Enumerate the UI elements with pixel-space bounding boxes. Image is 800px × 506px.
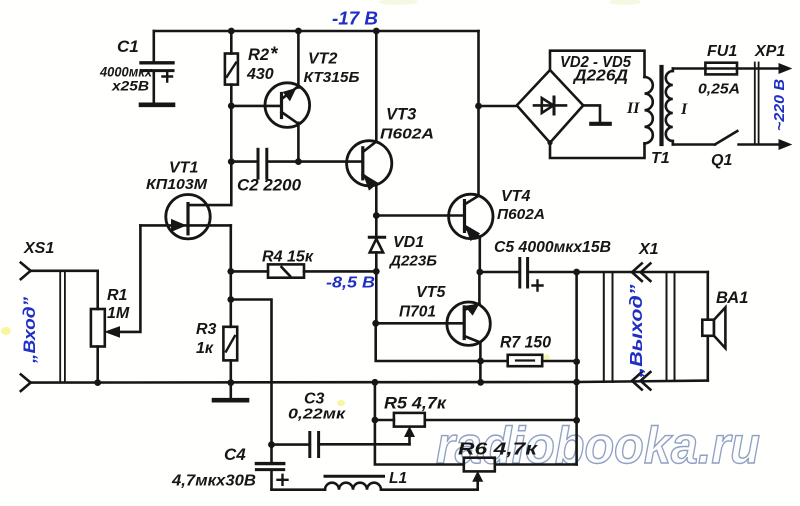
svg-text:VT5: VT5: [416, 284, 446, 301]
svg-text:Q1: Q1: [711, 152, 732, 169]
svg-text:C5 4000мкх15В: C5 4000мкх15В: [494, 239, 611, 256]
wire: branch to C4 column: [231, 300, 272, 445]
svg-text:I: I: [680, 101, 688, 118]
ground bar of C1: [141, 103, 173, 108]
wire: node column down to C2 node: [230, 106, 233, 162]
diode VD1: [369, 216, 384, 272]
svg-text:КП103М: КП103М: [146, 177, 208, 193]
trimmer R5: [375, 413, 577, 444]
wire: bridge node to rectifier left corner: [479, 105, 517, 108]
svg-text:VT2: VT2: [308, 51, 337, 68]
capacitor C4: [256, 445, 287, 490]
svg-text:R7 150: R7 150: [500, 334, 552, 352]
svg-text:VD1: VD1: [393, 234, 424, 251]
svg-text:1М: 1М: [107, 305, 130, 322]
svg-text:1к: 1к: [196, 340, 214, 357]
ground symbol under R3: [214, 383, 247, 401]
wire: lower column x=375 down to R6 lead: [375, 382, 464, 464]
potentiometer R1: [91, 309, 120, 383]
svg-text:Д226Д: Д226Д: [572, 68, 628, 85]
wire: VT3 emitter node to VT4 base: [376, 214, 464, 217]
wire: VD1 node down to VT5 base node: [375, 271, 378, 323]
connector XS1 bottom pin: [21, 374, 31, 391]
svg-text:VT1: VT1: [169, 160, 198, 177]
fuse FU1: [673, 63, 780, 75]
svg-text:-8,5 В: -8,5 В: [326, 275, 375, 292]
svg-text:R3: R3: [196, 321, 217, 338]
wire: common ground line: [31, 381, 708, 383]
connector XP1 separation marks: [755, 63, 759, 144]
transistor VT2 (KT315B): [265, 31, 310, 162]
capacitor C2: [231, 149, 362, 178]
svg-text:ВА1: ВА1: [716, 289, 748, 307]
wire: bridge loop through secondary winding II: [550, 51, 653, 158]
capacitor C3: [272, 433, 410, 457]
connector X1 top chevrons: [632, 263, 650, 281]
switch Q1: [673, 131, 780, 145]
wire: -17V top rail: [154, 30, 479, 33]
transistor VT4 (P602A): [449, 194, 493, 272]
svg-text:R5 4,7к: R5 4,7к: [384, 395, 448, 413]
wire: VT5 base wire: [376, 322, 465, 325]
svg-text:„Вход”: „Вход”: [20, 296, 39, 364]
transformer T1 core: [659, 67, 663, 144]
transistor VT5 (P701): [447, 272, 490, 382]
plug XP1 top arrow: [779, 64, 791, 74]
svg-text:R4 15к: R4 15к: [262, 249, 314, 266]
svg-text:-17 В: -17 В: [332, 9, 378, 29]
resistor R3: [223, 327, 237, 383]
svg-text:П701: П701: [399, 304, 436, 321]
svg-text:X1: X1: [638, 241, 659, 258]
svg-text:C4: C4: [224, 445, 246, 464]
plug XP1 bottom arrow: [779, 140, 791, 150]
trimmer R6: [464, 458, 577, 490]
inductor L1: [272, 476, 478, 490]
transistor VT1 (KP103M): [140, 195, 230, 239]
svg-text:R1: R1: [107, 287, 128, 304]
svg-text:VT3: VT3: [386, 106, 416, 124]
connector XS1 top pin: [21, 263, 98, 309]
svg-text:П602А: П602А: [497, 206, 545, 223]
svg-text:XP1: XP1: [754, 43, 785, 60]
svg-text:R6 4,7к: R6 4,7к: [458, 439, 538, 459]
svg-text:R2: R2: [248, 46, 269, 64]
wire: C2 node down and left to VT1 source: [188, 162, 231, 206]
svg-text:Д223Б: Д223Б: [388, 253, 437, 270]
resistor R7: [508, 355, 577, 366]
svg-text:FU1: FU1: [707, 43, 737, 60]
svg-text:XS1: XS1: [23, 240, 54, 257]
speaker BA1: [702, 307, 725, 348]
svg-text:4,7мкх30В: 4,7мкх30В: [171, 473, 256, 490]
wire: output column x=576: [575, 272, 578, 465]
rectifier bridge VD2-VD5: [517, 70, 583, 143]
connector XS1 cable marks: [60, 271, 65, 383]
svg-text:КТ315Б: КТ315Б: [304, 70, 360, 86]
transformer T1 primary winding I: [666, 69, 673, 145]
svg-text:0,25А: 0,25А: [698, 81, 740, 98]
capacitor C5: [480, 259, 708, 291]
wire: output line to X1: [706, 272, 709, 381]
svg-text:„Выход”: „Выход”: [626, 284, 646, 379]
wire: VT1 gate down to R1 wiper: [116, 225, 140, 332]
svg-text:VT4: VT4: [501, 188, 530, 205]
connector X1 bottom chevrons: [632, 372, 650, 390]
wire: R2 bottom node to VT2 base: [231, 105, 280, 108]
resistor R4: [231, 264, 376, 277]
svg-text:T1: T1: [651, 150, 670, 167]
svg-text:L1: L1: [389, 470, 407, 487]
connector X1 separation marks: [604, 272, 675, 382]
wire: VT1 drain column down: [230, 225, 233, 326]
ground symbol at bridge: [583, 105, 610, 123]
svg-text:C2 2200: C2 2200: [237, 177, 302, 195]
wire: VT5 base node down to R7 line: [376, 323, 508, 361]
svg-text:II: II: [626, 100, 640, 117]
resistor R2: [225, 31, 238, 106]
transistor VT3 (P602A): [347, 31, 392, 216]
capacitor C1: [141, 31, 173, 103]
wire: rail corner down to bridge node and VT4 collector: [477, 31, 480, 196]
svg-text:0,22мк: 0,22мк: [288, 406, 347, 423]
svg-text:~220 В: ~220 В: [772, 79, 788, 131]
svg-text:430: 430: [246, 66, 274, 83]
svg-text:C1: C1: [117, 37, 139, 56]
svg-text:П602А: П602А: [380, 126, 434, 143]
svg-text:х25В: х25В: [111, 78, 149, 94]
